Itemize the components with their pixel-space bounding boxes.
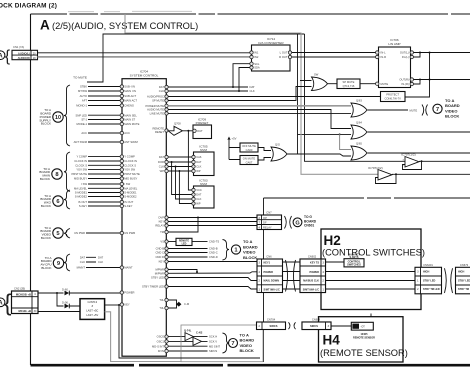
svg-text:HIGH: HIGH xyxy=(423,270,429,273)
svg-text:MID BUSY: MID BUSY xyxy=(74,177,87,181)
svg-text:OSC1: OSC1 xyxy=(157,340,165,344)
wire CND B/C/D xyxy=(168,249,207,258)
svg-text:CN7: CN7 xyxy=(266,211,272,215)
svg-text:CON6,7W-7V: CON6,7W-7V xyxy=(385,97,402,101)
svg-text:ANT SW/M: ANT SW/M xyxy=(74,140,88,144)
svg-text:IC707(1/2): IC707(1/2) xyxy=(401,153,416,157)
svg-text:SDA: SDA xyxy=(254,66,260,70)
resistor OFF MUTE Q760 xyxy=(240,143,258,152)
wire NVM bus rows xyxy=(168,157,192,171)
svg-text:LAST +5V: LAST +5V xyxy=(86,313,98,317)
svg-text:MD-S INT: MD-S INT xyxy=(152,344,164,348)
svg-text:MID BUSY: MID BUSY xyxy=(124,177,137,181)
wire LAST5V to KEY pin xyxy=(105,304,121,306)
svg-text:MAIN ST: MAIN ST xyxy=(124,118,135,122)
svg-text:BLOCK: BLOCK xyxy=(243,255,257,260)
wire op1 feedback xyxy=(403,161,422,169)
svg-text:TO MUTE: TO MUTE xyxy=(73,76,87,80)
svg-text:C-M: C-M xyxy=(184,302,190,306)
svg-text:DAT: DAT xyxy=(159,155,165,159)
svg-text:STBY TIMER LED: STBY TIMER LED xyxy=(142,285,164,289)
svg-text:MAIN SEL: MAIN SEL xyxy=(124,113,137,117)
wire STBY LED row xyxy=(168,278,257,281)
svg-text:AUTO: AUTO xyxy=(80,94,87,98)
svg-text:LED: LED xyxy=(182,242,187,245)
svg-text:AUDIO(R): AUDIO(R) xyxy=(18,56,30,60)
svg-text:STBY LED: STBY LED xyxy=(458,279,470,282)
wire AUDIO/PROC to PROTECT xyxy=(168,96,380,98)
svg-text:IR IN: IR IN xyxy=(158,349,164,353)
svg-text:ON MUTE: ON MUTE xyxy=(243,157,256,161)
svg-text:IC707(2/2): IC707(2/2) xyxy=(368,166,383,170)
svg-text:I SW: I SW xyxy=(124,182,130,186)
svg-text:ST-1: ST-1 xyxy=(81,118,87,122)
svg-text:LINE MUTE: LINE MUTE xyxy=(150,112,165,116)
svg-text:BLOCK: BLOCK xyxy=(41,236,51,240)
svg-text:L OUT: L OUT xyxy=(280,51,288,55)
svg-text:CN673: CN673 xyxy=(460,263,469,267)
svg-text:REMOTE SENSOR: REMOTE SENSOR xyxy=(353,337,375,340)
svg-text:CN6201: CN6201 xyxy=(423,263,433,267)
svg-text:S-MODE1: S-MODE1 xyxy=(124,191,137,195)
svg-text:S-KEY: S-KEY xyxy=(124,204,132,208)
svg-text:TO A: TO A xyxy=(445,98,454,103)
svg-text:OCK DIAGRAM (2): OCK DIAGRAM (2) xyxy=(0,3,57,10)
svg-text:CND D: CND D xyxy=(155,255,164,259)
svg-text:CLOCK IN: CLOCK IN xyxy=(74,159,87,163)
svg-text:MAIN I IN: MAIN I IN xyxy=(124,89,136,93)
svg-text:DAT: DAT xyxy=(98,255,104,259)
left reference circles 10 8 6 5 9 xyxy=(53,112,63,122)
crystal X701 xyxy=(168,300,176,308)
svg-text:CN601: CN601 xyxy=(304,224,314,228)
wire NVM tee branches xyxy=(172,162,193,204)
svg-text:IN-(R): IN-(R) xyxy=(401,82,408,86)
svg-text:Q/63: Q/63 xyxy=(356,99,362,103)
svg-text:NVM: NVM xyxy=(200,148,207,152)
svg-text:{: { xyxy=(5,48,11,65)
svg-text:7: 7 xyxy=(436,107,439,113)
svg-text:SIRCS: SIRCS xyxy=(209,349,217,353)
svg-text:CN704: CN704 xyxy=(267,318,276,322)
svg-text:PRST MUTE: PRST MUTE xyxy=(72,172,88,176)
svg-text:S/MT IWA-L/C: S/MT IWA-L/C xyxy=(303,288,319,291)
svg-text:MUTE: MUTE xyxy=(410,108,418,112)
svg-text:CLK: CLK xyxy=(196,165,201,169)
wire branch to D602 xyxy=(56,292,58,294)
wire feedback R xyxy=(414,80,421,85)
svg-text:OUT: OUT xyxy=(197,129,203,133)
connector CN1 box xyxy=(12,50,38,59)
svg-text:CA6: CA6 xyxy=(196,155,202,159)
bracket xyxy=(422,105,428,116)
wire DAT/CLK up to IC714 xyxy=(233,64,250,91)
svg-text:LIN AMP: LIN AMP xyxy=(388,42,400,46)
wire MUTE out xyxy=(368,109,409,111)
bracket pair xyxy=(286,260,296,292)
svg-text:DAT: DAT xyxy=(250,85,256,89)
svg-text:Q708: Q708 xyxy=(174,122,181,126)
svg-text:AUDIO/PROC: AUDIO/PROC xyxy=(147,95,164,99)
wire op1 out xyxy=(419,160,470,162)
svg-text:AUDIO MUTE: AUDIO MUTE xyxy=(147,108,164,112)
svg-text:SWITCHES: SWITCHES xyxy=(347,263,361,267)
svg-text:CA6T: CA6T xyxy=(246,160,253,164)
svg-text:CND-C: CND-C xyxy=(209,251,218,255)
svg-text:CND-D: CND-D xyxy=(209,255,218,259)
wire long vertical x263.5 xyxy=(263,198,265,362)
junction dot xyxy=(339,133,341,135)
svg-text:KEY: KEY xyxy=(159,260,165,264)
frame left edge xyxy=(30,14,32,365)
svg-text:Q/65: Q/65 xyxy=(356,142,362,146)
svg-text:REMOTE: REMOTE xyxy=(153,126,165,130)
node circle 7 (bottom) xyxy=(229,339,238,348)
svg-text:RESET: RESET xyxy=(155,130,164,134)
svg-text:SIRCS: SIRCS xyxy=(270,324,278,328)
wire row2 to box xyxy=(38,311,80,313)
svg-text:BLOCK: BLOCK xyxy=(445,114,459,119)
bracket xyxy=(223,240,230,261)
svg-text:POWER: POWER xyxy=(264,271,274,274)
svg-text:DOR: DOR xyxy=(158,160,164,164)
svg-text:IN2: IN2 xyxy=(254,55,259,59)
svg-text:WP: WP xyxy=(160,169,165,173)
wire L OUT / R OUT to IC706 xyxy=(292,53,376,58)
svg-text:S-MODE1: S-MODE1 xyxy=(75,191,88,195)
svg-text:H2: H2 xyxy=(324,233,341,248)
svg-text:MA/BUS CLK: MA/BUS CLK xyxy=(303,280,319,283)
svg-text:Q713,716: Q713,716 xyxy=(343,84,355,88)
wire gray net to op-amp 2/2 xyxy=(125,14,378,174)
svg-text:(REMOTE SENSOR): (REMOTE SENSOR) xyxy=(320,348,408,358)
svg-text:A: A xyxy=(40,18,50,33)
bracket pair xyxy=(289,322,296,329)
svg-text:SCK V: SCK V xyxy=(209,340,217,344)
wire sheet line y198 xyxy=(264,197,470,199)
wire gray LAST5C down xyxy=(105,312,181,362)
svg-text:POWER MUTE: POWER MUTE xyxy=(145,104,164,108)
svg-text:CLK: CLK xyxy=(196,197,201,201)
svg-text:CLK: CLK xyxy=(98,260,103,264)
svg-text:CN6: CN6 xyxy=(266,255,272,259)
svg-text:Y COMP: Y COMP xyxy=(124,155,135,159)
wire thin enclosure xyxy=(181,325,263,362)
svg-text:MA LEVEL: MA LEVEL xyxy=(74,186,88,190)
svg-text:SIRCS: SIRCS xyxy=(310,324,318,328)
svg-text:VIDEO: VIDEO xyxy=(445,108,457,113)
svg-text:NVM: NVM xyxy=(200,182,207,186)
svg-text:KEY: KEY xyxy=(124,303,130,307)
svg-text:OSC0: OSC0 xyxy=(157,335,165,339)
svg-text:S-KEY: S-KEY xyxy=(79,204,87,208)
H4 block REMOTE SENSOR xyxy=(319,317,404,362)
connector CN608 (overlay) xyxy=(302,322,331,330)
svg-text:RELAY: RELAY xyxy=(155,224,164,228)
junction xyxy=(300,105,302,107)
wire op2 feedback xyxy=(376,174,397,183)
svg-text:DVP: DVP xyxy=(158,216,164,220)
svg-text:SNP LED: SNP LED xyxy=(76,113,88,117)
wire feedback L xyxy=(414,53,421,58)
resistor REMOTE LED box xyxy=(168,241,176,243)
wire TM jog xyxy=(168,218,198,233)
svg-text:SW: SW xyxy=(314,73,319,77)
svg-text:BOARD: BOARD xyxy=(445,103,460,108)
svg-text:VCC: VCC xyxy=(196,188,202,192)
H2 block CONTROL SWITCHES xyxy=(321,229,421,310)
svg-text:{: { xyxy=(4,290,12,316)
svg-text:LAST +5C: LAST +5C xyxy=(86,308,98,312)
node circle 7 (top) xyxy=(433,104,442,113)
svg-text:PRST MUTE: PRST MUTE xyxy=(124,172,140,176)
svg-text:IN-L: IN-L xyxy=(381,51,387,55)
svg-text:CLK: CLK xyxy=(159,89,164,93)
wires: left connector groups to IC704 pins xyxy=(88,86,120,88)
svg-text:MD SINT: MD SINT xyxy=(209,344,220,348)
wire Q762 out to gate Q765 xyxy=(287,154,352,156)
wire Q708 branch down to IC703 xyxy=(188,131,192,190)
wire OSC1 to Q742 xyxy=(168,340,193,342)
svg-text:MCHG +B: MCHG +B xyxy=(19,309,32,313)
svg-text:SP MUTE: SP MUTE xyxy=(343,80,355,84)
svg-text:CLOCK IN: CLOCK IN xyxy=(124,159,137,163)
svg-text:SUB-ACT: SUB-ACT xyxy=(124,94,136,98)
wire KEY row xyxy=(168,261,257,263)
svg-text:10: 10 xyxy=(55,115,61,121)
svg-text:M/PWR: M/PWR xyxy=(155,271,164,275)
wire gate3 input branch xyxy=(340,134,351,149)
node DATA/CLK stubs of group 9 xyxy=(86,257,96,262)
svg-text:CLK: CLK xyxy=(80,260,85,264)
svg-text:STBY LED: STBY LED xyxy=(151,276,164,280)
connector CN2 box xyxy=(12,291,39,314)
regulator CN713 LAST5V box xyxy=(80,299,105,320)
svg-text:D-60: D-60 xyxy=(62,287,68,291)
wire DVP/KEY/RELAY to CN7 xyxy=(168,218,257,226)
connector CN602 (overlay) xyxy=(300,259,326,293)
wire STBY TIMER row xyxy=(168,287,257,290)
svg-text:KEY1: KEY1 xyxy=(264,261,271,264)
resistor ON MUTE Q761 xyxy=(240,156,258,165)
svg-text:R OUT: R OUT xyxy=(279,55,288,59)
wire M/PWR row xyxy=(168,272,257,274)
svg-text:IN-(L): IN-(L) xyxy=(402,55,409,59)
svg-text:CND B: CND B xyxy=(156,247,165,251)
svg-text:OUT(L): OUT(L) xyxy=(400,51,409,55)
svg-text:BLOCK: BLOCK xyxy=(41,122,51,126)
svg-text:BLOCK: BLOCK xyxy=(40,177,50,181)
svg-text:KEY: KEY xyxy=(159,220,165,224)
wire AUDIO(R) to IC714 IN2 (gray) xyxy=(38,56,251,58)
svg-text:-OT: -OT xyxy=(361,326,366,329)
remote sensor component xyxy=(351,322,373,330)
wire Q764 out xyxy=(368,131,470,133)
svg-text:C2N713: C2N713 xyxy=(88,300,98,304)
svg-text:G: G xyxy=(295,221,299,227)
wire MD-S INT xyxy=(168,345,207,347)
wire to sensor xyxy=(331,325,351,327)
svg-text:AUDIO(L): AUDIO(L) xyxy=(18,51,30,55)
svg-text:POWER: POWER xyxy=(124,291,134,295)
svg-text:DAT: DAT xyxy=(159,85,165,89)
svg-text:BLOCK: BLOCK xyxy=(240,348,254,353)
svg-text:SUB-I IN: SUB-I IN xyxy=(124,85,135,89)
svg-text:CHENG: CHENG xyxy=(124,104,134,108)
svg-text:WP: WP xyxy=(196,169,201,173)
svg-text:MAIN ACT: MAIN ACT xyxy=(124,99,137,103)
svg-text:DAT: DAT xyxy=(196,160,202,164)
svg-text:+5V: +5V xyxy=(232,137,237,141)
svg-text:(CONTROL SWITCHES): (CONTROL SWITCHES) xyxy=(322,248,425,258)
svg-text:D/A CONVERTER: D/A CONVERTER xyxy=(258,41,284,45)
wire AUDIO MUTE to gate Q764 xyxy=(168,110,351,129)
svg-text:UN PWR: UN PWR xyxy=(74,231,85,235)
svg-text:STBK: STBK xyxy=(80,85,87,89)
svg-text:Q-74L: Q-74L xyxy=(184,328,192,332)
wire IR IN xyxy=(168,350,207,352)
svg-text:IN1: IN1 xyxy=(254,51,259,55)
svg-text:YGV SW: YGV SW xyxy=(124,168,135,172)
svg-text:OP: OP xyxy=(263,216,267,220)
bracket xyxy=(285,216,292,229)
svg-text:WP: WP xyxy=(196,202,201,206)
svg-text:Y COMP: Y COMP xyxy=(76,155,87,159)
svg-text:CN608: CN608 xyxy=(312,318,321,322)
svg-text:T3L: T3L xyxy=(159,298,164,302)
wires to gate Q762 xyxy=(258,148,271,161)
svg-text:AFT: AFT xyxy=(82,99,87,103)
svg-text:CN2 (2B): CN2 (2B) xyxy=(14,287,25,291)
node +5V xyxy=(229,140,240,160)
svg-text:CLK: CLK xyxy=(159,165,164,169)
wire +B row to POWER pin xyxy=(38,292,120,294)
connector circle A (top left) xyxy=(0,51,5,60)
svg-text:MAIN MUTE: MAIN MUTE xyxy=(124,122,139,126)
svg-text:Q/G: Q/G xyxy=(275,143,280,147)
IC704 right side pins xyxy=(165,85,168,88)
svg-text:IN-R: IN-R xyxy=(381,55,387,59)
svg-text:MAINT: MAINT xyxy=(77,266,86,270)
svg-text:S-MODE2: S-MODE2 xyxy=(75,195,88,199)
svg-text:CLK: CLK xyxy=(250,89,255,93)
svg-text:DAT: DAT xyxy=(80,255,86,259)
svg-text:SCL: SCL xyxy=(254,62,260,66)
bracket xyxy=(223,333,230,353)
svg-text:H4: H4 xyxy=(323,333,341,348)
node circle 1 xyxy=(231,245,240,254)
svg-text:CND-TS: CND-TS xyxy=(209,240,219,244)
svg-text:OUT(R): OUT(R) xyxy=(399,78,409,82)
svg-text:SYSTEM CONTROL: SYSTEM CONTROL xyxy=(130,74,159,78)
wire KEY net down and right xyxy=(119,305,260,358)
svg-text:BLOCK: BLOCK xyxy=(41,204,51,208)
svg-text:CA60: CA60 xyxy=(246,148,253,152)
wire op2 out xyxy=(392,173,470,175)
svg-text:DAT: DAT xyxy=(196,193,202,197)
wire DAT xyxy=(168,86,248,88)
resistor SP MUTE Q713,716 xyxy=(328,83,338,85)
svg-text:CLOCK S: CLOCK S xyxy=(75,163,87,167)
svg-text:C-/02: C-/02 xyxy=(196,330,203,334)
svg-text:STBY TM LED: STBY TM LED xyxy=(423,288,440,291)
svg-text:MAINT: MAINT xyxy=(124,266,133,270)
svg-text:ACC: ACC xyxy=(81,131,87,135)
svg-text:RELAY: RELAY xyxy=(263,225,272,229)
svg-text:SCK H: SCK H xyxy=(209,335,217,339)
wires between CN6 and CN602 xyxy=(283,262,301,289)
wire OUT(L) xyxy=(414,52,470,54)
svg-text:CND-B: CND-B xyxy=(209,247,218,251)
svg-text:IS OUT: IS OUT xyxy=(78,200,87,204)
svg-text:I SW: I SW xyxy=(81,182,87,186)
wire LINE MUTE to gate Q763 xyxy=(168,112,351,114)
svg-text:MUTE: MUTE xyxy=(381,82,389,86)
svg-text:OFF MUTE: OFF MUTE xyxy=(242,144,256,148)
svg-text:CN602: CN602 xyxy=(308,255,317,259)
wire POWER MUTE (gray) to gate Q763 xyxy=(168,105,351,107)
wire to PROTECT xyxy=(405,53,430,98)
svg-text:MONO-1: MONO-1 xyxy=(76,104,87,108)
svg-text:IS OUT: IS OUT xyxy=(124,200,133,204)
connector circle A (bottom left) xyxy=(0,298,5,307)
svg-text:D-06: D-06 xyxy=(62,300,68,304)
frame bottom edge xyxy=(31,364,470,367)
svg-text:S-MODE2: S-MODE2 xyxy=(124,195,137,199)
wire TO MUTE net xyxy=(87,34,405,161)
wire OSC0 to Q741 xyxy=(168,336,185,338)
svg-text:CLOCK S: CLOCK S xyxy=(124,163,136,167)
svg-text:S/MT IWA-L/C: S/MT IWA-L/C xyxy=(264,288,280,291)
svg-text:T3L: T3L xyxy=(159,306,164,310)
svg-text:7: 7 xyxy=(231,341,234,347)
svg-text:CN1 (7A): CN1 (7A) xyxy=(13,45,24,49)
svg-text:MCHG/B +B: MCHG/B +B xyxy=(16,293,31,297)
resistor PROTECT CONV xyxy=(381,92,406,102)
bracket pair xyxy=(445,268,453,293)
wire SP MUTE to gate Q712 xyxy=(168,81,311,101)
svg-text:PROTECT: PROTECT xyxy=(386,93,399,97)
svg-text:ANT SW/M: ANT SW/M xyxy=(124,140,138,144)
svg-text:CND C: CND C xyxy=(155,251,164,255)
svg-text:DF: DF xyxy=(263,221,267,225)
wire AUDIO(L) to IC714 IN1 xyxy=(38,52,251,54)
svg-text:MA LEVEL: MA LEVEL xyxy=(124,186,138,190)
svg-text:BLOCK: BLOCK xyxy=(41,266,51,270)
node circle G xyxy=(293,218,302,227)
svg-text:ACC: ACC xyxy=(124,131,130,135)
wire OUT(R) xyxy=(414,79,470,81)
wire Q765 out xyxy=(368,152,470,154)
svg-text:YGV SW: YGV SW xyxy=(76,168,87,172)
svg-text:UN PWR: UN PWR xyxy=(124,231,135,235)
svg-text:MPWR: MPWR xyxy=(155,268,164,272)
svg-text:MODE-1: MODE-1 xyxy=(77,122,88,126)
svg-text:STBY TM: STBY TM xyxy=(458,288,469,291)
svg-text:POWER: POWER xyxy=(310,271,320,274)
svg-text:STBY LED: STBY LED xyxy=(423,279,436,282)
wire MPWR jog xyxy=(168,270,197,273)
svg-text:SP MUTE: SP MUTE xyxy=(152,99,164,103)
svg-text:MT/SW: MT/SW xyxy=(78,89,87,93)
wire CLK xyxy=(168,90,248,92)
svg-text:VS: VS xyxy=(160,240,164,244)
svg-text:MA/IL DOWN: MA/IL DOWN xyxy=(264,280,280,283)
svg-text:HIGH: HIGH xyxy=(458,270,464,273)
svg-text:Q/64: Q/64 xyxy=(356,121,362,125)
wires H2 to CN6201 xyxy=(326,272,416,290)
frame top edge xyxy=(31,13,470,15)
